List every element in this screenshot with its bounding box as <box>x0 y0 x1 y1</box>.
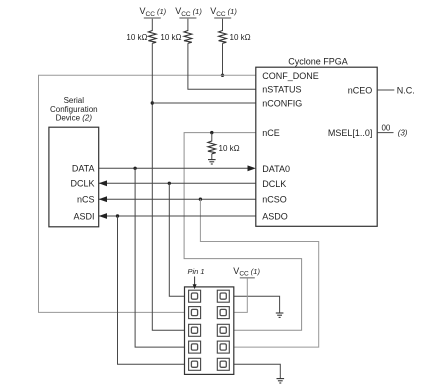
svg-text:nCE: nCE <box>262 128 280 138</box>
header pin 4 <box>217 307 229 319</box>
wire resistor R4 to ground <box>211 154 213 160</box>
wire DCLK net: FPGA DCLK to serial device <box>99 182 256 184</box>
wire nCS net loop to header pin 8 <box>200 199 318 347</box>
header pin 5 <box>189 324 201 336</box>
wire DCLK net down to header pin 1 <box>169 183 188 296</box>
header pin 3 <box>189 307 201 319</box>
wire resistor R2 to nSTATUS pin <box>188 43 256 89</box>
svg-text:nSTATUS: nSTATUS <box>262 85 301 95</box>
arrowhead into serial device nCS <box>99 196 107 202</box>
resistor R3 10k pull-up (CONF_DONE) <box>219 31 251 44</box>
wire VCC to header pin 4 <box>234 278 247 312</box>
junction dot ASDI net <box>116 214 119 217</box>
ground symbol at pin 10 <box>277 379 285 383</box>
junction dot nCS net <box>199 198 202 201</box>
svg-text:10 kΩ: 10 kΩ <box>230 33 251 42</box>
wire nCE dot to pull-down resistor <box>211 133 213 142</box>
wire VCC3 to resistor R3 <box>222 19 224 31</box>
svg-text:nCS: nCS <box>77 195 95 205</box>
wire nCE net from FPGA around to header pin 6 <box>184 133 302 331</box>
wire DATA net: serial device DATA to FPGA DATA0 <box>99 167 249 169</box>
header pin 1 <box>189 290 201 302</box>
svg-text:Device (2): Device (2) <box>56 114 93 123</box>
svg-text:nCONFIG: nCONFIG <box>262 99 302 109</box>
wire ASDI net: FPGA ASDO to serial device ASDI <box>99 215 256 217</box>
power symbol VCC (1) at header pin 4 <box>233 266 260 278</box>
svg-text:DCLK: DCLK <box>262 179 286 189</box>
svg-text:00: 00 <box>381 123 390 132</box>
svg-text:Serial: Serial <box>64 96 85 105</box>
header pin 7 <box>189 341 201 353</box>
svg-text:DATA0: DATA0 <box>262 164 290 174</box>
wire resistor R3 to CONF_DONE net <box>222 43 224 75</box>
label Serial Configuration Device (2) <box>50 96 98 122</box>
arrowhead into FPGA DATA0 <box>248 165 256 171</box>
header pin 9 <box>189 358 201 370</box>
wire ASDI net down to header pin 9 <box>118 216 189 364</box>
junction dot CONF_DONE / R3 <box>221 74 224 77</box>
svg-text:MSEL[1..0]: MSEL[1..0] <box>328 128 373 138</box>
wire nCONFIG to FPGA <box>152 102 256 104</box>
wire resistor R1 down nCONFIG net to header pin 5 <box>152 43 188 330</box>
svg-text:Cyclone FPGA: Cyclone FPGA <box>288 56 348 66</box>
svg-text:ASDI: ASDI <box>73 211 94 221</box>
header pin 8 <box>217 341 229 353</box>
power symbol VCC (1) #2 <box>175 6 202 18</box>
svg-text:nCEO: nCEO <box>348 85 373 95</box>
label Pin 1 with arrow <box>188 267 205 290</box>
svg-text:(3): (3) <box>398 129 408 138</box>
resistor R4 10k pull-down on nCE <box>208 141 240 154</box>
svg-text:10 kΩ: 10 kΩ <box>126 33 147 42</box>
svg-text:ASDO: ASDO <box>262 212 288 222</box>
header connector box J1 <box>185 287 234 375</box>
svg-text:DATA: DATA <box>72 164 95 174</box>
junction dot nCONFIG / R1 <box>151 101 154 104</box>
svg-text:nCSO: nCSO <box>262 195 287 205</box>
junction dot nCE / pull-down resistor <box>210 131 213 134</box>
wire nCEO to N.C. <box>377 89 394 91</box>
serial configuration device box U2 <box>49 127 99 227</box>
arrowhead into serial device DCLK <box>99 180 107 186</box>
arrowhead into serial device ASDI <box>99 213 107 219</box>
wire CONF_DONE net loop to header pin 3 <box>39 75 256 312</box>
power symbol VCC (1) #1 <box>140 6 167 18</box>
svg-text:N.C.: N.C. <box>397 85 415 95</box>
power symbol VCC (1) #3 <box>210 6 237 18</box>
header pin 10 <box>217 358 229 370</box>
junction dot DATA net <box>133 167 136 170</box>
wire DATA net down to header pin 7 <box>135 168 189 347</box>
resistor R2 10k pull-up (nSTATUS) <box>160 31 191 44</box>
wire header pin 2 to ground <box>229 296 279 313</box>
wire MSEL stub <box>377 132 393 134</box>
svg-text:10 kΩ: 10 kΩ <box>219 144 240 153</box>
resistor R1 10k pull-up (nCONFIG) <box>126 31 156 44</box>
svg-text:CONF_DONE: CONF_DONE <box>262 71 319 81</box>
svg-text:DCLK: DCLK <box>70 179 94 189</box>
svg-text:10 kΩ: 10 kΩ <box>160 33 181 42</box>
junction dot DCLK net <box>168 182 171 185</box>
wire header pin 10 to ground <box>229 364 280 378</box>
Cyclone FPGA box U1 <box>256 67 377 226</box>
svg-text:Pin 1: Pin 1 <box>188 267 205 276</box>
header pin 6 <box>217 324 229 336</box>
header pin 2 <box>217 290 229 302</box>
ground symbol at pin 2 <box>276 313 284 317</box>
wire VCC2 to resistor R2 <box>187 19 189 31</box>
ground symbol under R4 <box>208 160 216 164</box>
wire nCS net: FPGA nCSO to serial device nCS <box>99 198 256 200</box>
wire VCC1 to resistor R1 <box>151 19 153 31</box>
